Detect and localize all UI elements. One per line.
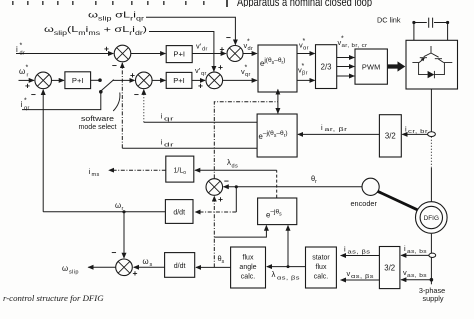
svg-text:*: *	[26, 65, 29, 72]
flux angle calc block	[231, 247, 266, 288]
svg-text:as, βs: as, βs	[348, 250, 371, 256]
rotation block e^j(theta_s - theta_r)	[258, 45, 297, 92]
wire summer D to PI block 0	[52, 79, 64, 81]
wire sensor down to DFIG rotor	[430, 137, 432, 168]
wire compensation term 2 into summer C	[149, 32, 214, 72]
wire wslip output arrow	[88, 266, 115, 268]
thick arrow PWM to converter	[388, 61, 406, 71]
svg-text:*: *	[24, 98, 27, 105]
svg-text:−: −	[134, 90, 139, 100]
leader arc to switch	[113, 93, 120, 112]
rotation block e^-j theta_s	[258, 198, 297, 225]
current sensor ellipse (stator)	[429, 253, 436, 257]
svg-text:+: +	[25, 81, 30, 91]
svg-text:ω: ω	[143, 257, 149, 266]
svg-text:mode select: mode select	[79, 122, 117, 131]
svg-text:i: i	[321, 123, 323, 132]
wire lambda_ds from e-jths block to 1/Lo	[276, 170, 278, 197]
svg-text:βr: βr	[302, 71, 308, 77]
d/dt block (rotor speed)	[165, 200, 193, 224]
svg-text:PWM: PWM	[362, 62, 381, 71]
rotor-side converter block with IGBTs and diode	[406, 40, 458, 89]
svg-text:ω: ω	[62, 264, 68, 273]
svg-text:+: +	[220, 44, 225, 54]
wire sensed rotor current to 3/2 block	[402, 133, 431, 135]
wire theta_s branch to e-jths block	[214, 226, 266, 238]
2/3 phase transform block	[316, 45, 337, 89]
wire idr from rotation block to feedback	[122, 147, 257, 149]
svg-text:λ: λ	[227, 158, 231, 167]
wire iqr from rotation block to feedback	[144, 121, 257, 123]
wire PI2 to summer C	[192, 79, 205, 81]
svg-text:dr: dr	[202, 47, 208, 53]
svg-text:ωslip σLriqr: ωslip σLriqr	[88, 10, 144, 23]
svg-text:v′: v′	[195, 66, 201, 75]
summing junction C (adds decoupling term, q-axis)	[198, 62, 223, 91]
svg-text:as, bs: as, bs	[407, 273, 427, 279]
svg-text:+: +	[218, 194, 223, 204]
svg-text:+: +	[198, 81, 203, 91]
svg-text:i: i	[344, 245, 346, 254]
svg-text:ar, βr: ar, βr	[325, 127, 348, 133]
summing junction B (adds decoupling term, d-axis)	[220, 33, 243, 62]
svg-text:+: +	[133, 268, 138, 278]
wire wr output to left and up to speed summer	[43, 211, 165, 213]
svg-text:i: i	[404, 244, 406, 253]
svg-text:+: +	[104, 44, 109, 54]
svg-text:ω: ω	[19, 67, 25, 76]
svg-text:DC link: DC link	[377, 16, 401, 25]
svg-text:P+I: P+I	[173, 76, 185, 85]
wire converter down to rotor sensor	[430, 89, 432, 132]
svg-text:i: i	[89, 167, 91, 176]
wire i*dr input into summer A	[16, 53, 113, 55]
wire stator voltage tap to 3/2	[401, 279, 431, 281]
shaft from encoder to DFIG	[378, 191, 420, 210]
3/2 transform block (stator quantities)	[379, 247, 400, 289]
svg-text:flux: flux	[243, 255, 254, 262]
dc link capacitor and wires	[412, 18, 449, 41]
wires 2/3 to PWM (3 phases)	[337, 57, 355, 59]
svg-text:ar, br, cr: ar, br, cr	[342, 43, 368, 49]
svg-text:*: *	[341, 36, 344, 43]
svg-text:as, bs: as, bs	[407, 249, 427, 255]
svg-text:3/2: 3/2	[384, 263, 395, 272]
wire summer 2 to PI block 2	[152, 79, 165, 81]
wire v*ar to 2/3 block	[297, 53, 315, 55]
wire stator flux to flux angle calc	[267, 266, 306, 268]
svg-text:αs, βs: αs, βs	[277, 276, 300, 282]
svg-text:3/2: 3/2	[385, 132, 396, 141]
svg-text:v′: v′	[196, 42, 202, 51]
wire i_qr feedback up into summer 2	[143, 90, 145, 123]
svg-text:v: v	[347, 269, 351, 278]
svg-text:d/dt: d/dt	[173, 209, 185, 216]
svg-text:−: −	[112, 248, 117, 258]
svg-text:flux: flux	[316, 264, 327, 271]
wire i_dr feedback up into summer A	[121, 63, 123, 148]
svg-text:P+I: P+I	[72, 76, 84, 85]
summing junction A (d-axis current error)	[104, 44, 131, 71]
svg-text:r: r	[315, 179, 317, 185]
wire sensed stator current to 3/2	[401, 254, 429, 256]
switch arm software mode select	[100, 80, 113, 92]
svg-text:*: *	[247, 39, 250, 46]
svg-text:*: *	[302, 63, 305, 70]
wire ws from d/dt into summer F	[134, 266, 165, 268]
DFIG machine	[416, 202, 448, 234]
svg-text:2/3: 2/3	[321, 62, 332, 71]
summing junction F (slip speed)	[112, 248, 138, 278]
wire i*qr input to switch contact	[22, 93, 101, 110]
svg-text:αs, βs: αs, βs	[351, 274, 374, 280]
wire v as,Bs to stator flux calc	[341, 279, 380, 281]
svg-text:slip: slip	[69, 269, 79, 275]
node lambda branch	[287, 265, 290, 268]
svg-text:d/dt: d/dt	[174, 263, 186, 270]
wire 3/2 to inverse rotation block	[298, 133, 379, 135]
wire lambda up into e-jths block	[287, 226, 289, 267]
svg-text:cr, br: cr, br	[408, 129, 428, 135]
svg-text:+: +	[218, 62, 223, 72]
svg-text:calc.: calc.	[241, 274, 255, 281]
wire wr feedback up into summer D	[42, 90, 44, 212]
svg-text:calc.: calc.	[314, 274, 328, 281]
PI controller block row1	[166, 46, 192, 63]
svg-text:ms: ms	[92, 172, 100, 178]
wire ims output	[109, 169, 166, 171]
svg-text:−: −	[31, 90, 36, 100]
summing junction 2 (q-axis current error)	[130, 70, 152, 100]
svg-text:encoder: encoder	[351, 199, 378, 208]
svg-text:ω: ω	[115, 201, 121, 210]
node wr branch	[122, 210, 125, 213]
svg-text:r-control structure for DFIG: r-control structure for DFIG	[3, 293, 104, 303]
svg-text:angle: angle	[239, 264, 256, 271]
wire theta_r from encoder into summer E	[224, 186, 362, 188]
wire summer C into rotation block	[223, 79, 257, 81]
d/dt block (stator flux speed)	[165, 253, 195, 278]
svg-text:qr: qr	[24, 106, 30, 112]
PI controller block row2	[166, 72, 192, 88]
wire summer A to PI block 1	[131, 53, 166, 55]
svg-text:Apparatus a nominal closed loo: Apparatus a nominal closed loop	[237, 0, 372, 9]
svg-text:P+I: P+I	[173, 49, 185, 58]
svg-text:*: *	[20, 43, 23, 50]
svg-text:αr: αr	[303, 46, 309, 52]
svg-text:i: i	[161, 138, 163, 147]
1/Lo block	[166, 156, 194, 182]
svg-text:dr: dr	[248, 46, 254, 52]
svg-text:i: i	[405, 124, 407, 133]
svg-text:stator: stator	[312, 255, 330, 262]
wire PI0 output to switch contact	[91, 79, 100, 81]
svg-text:i: i	[21, 100, 23, 109]
svg-text:−: −	[224, 176, 229, 186]
svg-text:+: +	[130, 70, 135, 80]
svg-text:ωslip(Lmims + σLridr): ωslip(Lmims + σLridr)	[44, 24, 147, 37]
wire compensation term 1 into summer B	[146, 17, 235, 44]
encoder circle	[362, 178, 379, 195]
wire i as,Bs to stator flux calc	[341, 255, 380, 257]
svg-text:r: r	[27, 73, 29, 79]
svg-text:s: s	[222, 259, 225, 265]
3/2 transform block (rotor currents)	[379, 115, 401, 157]
switch contact dot (current mode)	[99, 90, 103, 94]
wire wr down into slip summer F	[123, 212, 125, 258]
wire v*br to 2/3 block	[297, 79, 315, 81]
stator flux calc block	[306, 247, 337, 288]
PWM block	[355, 49, 387, 84]
wire theta_s up into summer E	[213, 196, 215, 267]
svg-text:supply: supply	[422, 294, 443, 303]
svg-text:*: *	[303, 38, 306, 45]
node theta_r branch	[235, 185, 238, 188]
wire w*r input into summer D	[19, 79, 34, 81]
svg-text:DFIG: DFIG	[424, 215, 439, 222]
wire theta_r branch to d/dt	[235, 187, 237, 212]
summing junction E (slip angle theta_s - theta_r)	[206, 176, 229, 204]
svg-text:λ: λ	[272, 270, 276, 279]
svg-text:qr: qr	[201, 71, 207, 77]
wire PI1 to summer B	[192, 53, 226, 55]
svg-text:qr: qr	[164, 116, 174, 122]
svg-text:−: −	[226, 33, 231, 43]
wire switch output into summer 2	[113, 79, 135, 81]
svg-text:qr: qr	[245, 72, 251, 78]
inverse rotation block e^-j(theta_s - theta_r)	[257, 114, 297, 157]
cropped page text at top edge	[12, 0, 372, 9]
wire summer B into rotation block	[243, 53, 257, 55]
PI controller block speed loop	[65, 72, 91, 89]
svg-text:dr: dr	[164, 142, 174, 148]
svg-text:i: i	[16, 45, 18, 54]
wire slip angle to rotation blocks	[214, 102, 278, 179]
svg-text:*: *	[245, 65, 248, 72]
summing junction D (speed error)	[25, 72, 51, 99]
svg-text:−: −	[112, 61, 117, 71]
svg-text:ds: ds	[232, 164, 239, 170]
svg-text:i: i	[161, 112, 163, 121]
current sensor ellipse (rotor)	[428, 132, 436, 137]
wire theta_s from flux angle calc to d/dt	[196, 266, 231, 268]
wire DFIG stator down to supply	[430, 234, 432, 284]
node supply tap	[430, 278, 434, 282]
switch contact dot (speed mode)	[98, 78, 102, 82]
